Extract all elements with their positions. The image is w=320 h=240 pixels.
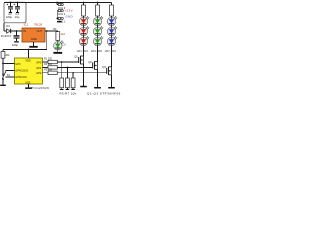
svg-text:R1 220: R1 220 — [44, 58, 53, 61]
junction CN1 — [56, 2, 58, 4]
ground Q3 — [108, 87, 115, 89]
LED green row 2 column 2 — [93, 26, 103, 35]
svg-text:IC1: IC1 — [24, 22, 29, 26]
connector CN1 pin 1 — [58, 17, 63, 19]
capacitor C2 — [7, 3, 13, 14]
wire rail to R10 — [111, 3, 113, 6]
switch S1 — [2, 71, 6, 80]
wire gate node drop — [66, 67, 68, 78]
svg-text:Q1-Q3 STP36NF06: Q1-Q3 STP36NF06 — [87, 91, 121, 95]
wire VSS stub — [28, 84, 30, 87]
wire LED column 3 to Q3 drain — [111, 46, 113, 67]
wire R3 to gate — [57, 72, 106, 74]
svg-text:R5-R7 10k: R5-R7 10k — [59, 91, 76, 95]
junction — [72, 72, 74, 74]
wire VDD stub — [28, 50, 30, 59]
wire R1 to gate — [57, 61, 78, 63]
svg-text:Q2: Q2 — [88, 60, 92, 64]
LED blue row 3 column 3 — [107, 36, 117, 45]
junction VDD — [28, 49, 30, 51]
svg-text:78L05: 78L05 — [34, 22, 43, 26]
transistor Q2 (N-MOSFET) — [93, 61, 98, 69]
wire — [83, 26, 85, 28]
svg-text:IN: IN — [23, 29, 26, 33]
svg-text:R3 220: R3 220 — [44, 68, 53, 71]
wire GP0 out — [43, 61, 49, 63]
svg-text:GND: GND — [65, 14, 73, 18]
svg-text:1N4007: 1N4007 — [1, 34, 12, 38]
capacitor C3 — [14, 31, 20, 43]
wire gate node drop — [61, 62, 63, 78]
wire — [97, 36, 99, 38]
LED D2 power indicator — [54, 41, 64, 50]
wire — [97, 26, 99, 28]
svg-text:10µ: 10µ — [15, 15, 20, 19]
wire — [57, 30, 59, 33]
LED green row 3 column 2 — [93, 36, 103, 45]
svg-text:GP3: GP3 — [15, 62, 21, 66]
wire R7 to S1 — [2, 58, 4, 74]
wire gate node drop — [72, 73, 74, 78]
LED red row 1 column 1 — [79, 16, 89, 25]
wire GP2 out — [43, 72, 49, 74]
wire to GP3 — [3, 63, 15, 65]
LED blue row 2 column 3 — [107, 26, 117, 35]
svg-text:GND: GND — [31, 37, 37, 41]
svg-text:PIC12F629: PIC12F629 — [31, 86, 49, 90]
svg-text:VSS: VSS — [25, 80, 30, 84]
wire CN1 pin2 to ground — [57, 10, 58, 12]
wire IC1 GND pin — [33, 42, 35, 46]
ground IC2 — [25, 87, 32, 89]
wire — [57, 40, 59, 41]
junction — [17, 2, 19, 4]
wire CN1 pin3 — [56, 3, 58, 5]
resistor R7 — [1, 51, 5, 58]
ground Q1 — [80, 86, 87, 88]
junction — [56, 18, 58, 20]
svg-text:S1: S1 — [7, 73, 11, 77]
wire rail to R8 — [83, 3, 85, 6]
microcontroller IC2 PIC12F629 — [15, 58, 43, 84]
resistor R10 LED column — [110, 5, 114, 16]
LED red row 3 column 1 — [79, 36, 89, 45]
wire D1 to IC1 — [11, 30, 22, 32]
wire — [97, 16, 99, 17]
wire Q1 source — [83, 64, 85, 86]
svg-text:GP2: GP2 — [36, 71, 42, 75]
wire Q3 source — [111, 75, 113, 87]
resistor R1 — [48, 60, 57, 63]
wire — [72, 88, 74, 89]
junction — [10, 2, 12, 4]
wire — [83, 16, 85, 17]
ground Q2 — [94, 87, 101, 89]
ground D2 — [53, 52, 62, 54]
svg-text:Q3: Q3 — [102, 65, 106, 69]
junction rail — [97, 2, 99, 4]
LED blue row 1 column 3 — [107, 16, 117, 25]
wire +5V rail to PIC — [3, 49, 47, 51]
svg-text:LD7-LD9: LD7-LD9 — [105, 49, 117, 53]
svg-text:1k2: 1k2 — [61, 32, 66, 36]
wire — [2, 50, 4, 52]
wire +5V drop — [46, 31, 48, 50]
wire Q2 source — [97, 69, 99, 87]
capacitor C1 — [14, 3, 20, 14]
wire rail to R9 — [97, 3, 99, 6]
resistor R4 — [56, 32, 60, 41]
resistor R8 LED column — [82, 5, 86, 16]
svg-text:R2 220: R2 220 — [44, 63, 53, 66]
wire — [111, 26, 113, 28]
connector CN1 pin 2 — [58, 10, 63, 12]
ground CN1 — [57, 21, 62, 23]
svg-text:VDD: VDD — [25, 58, 31, 62]
resistor R9 LED column — [96, 5, 100, 16]
wire — [111, 36, 113, 38]
resistor R7 pulldown — [71, 78, 75, 88]
svg-text:GP4/CLKO: GP4/CLKO — [15, 68, 28, 72]
LED green row 1 column 2 — [93, 16, 103, 25]
resistor R5 pulldown — [60, 78, 64, 88]
LED red row 2 column 1 — [79, 26, 89, 35]
junction — [67, 67, 69, 69]
wire — [57, 50, 59, 52]
junction +5V — [46, 30, 48, 32]
wire IC1 OUT +5V — [45, 30, 58, 32]
input filter annotation box — [4, 2, 26, 23]
ground R6 — [66, 89, 70, 90]
junction rail — [83, 2, 85, 4]
svg-text:10k: 10k — [5, 53, 10, 57]
ground IC1 — [29, 46, 37, 48]
transistor Q1 (N-MOSFET) — [79, 56, 84, 64]
wire GP1 out — [43, 66, 49, 68]
svg-text:100µ: 100µ — [6, 15, 12, 19]
wire — [111, 16, 113, 17]
svg-text:D1: D1 — [6, 24, 10, 28]
resistor R6 pulldown — [66, 78, 70, 88]
resistor R3 — [48, 71, 57, 74]
svg-text:LD1-LD3: LD1-LD3 — [77, 49, 89, 53]
svg-text:GP1: GP1 — [36, 66, 42, 70]
regulator IC1 78L05 — [22, 28, 45, 42]
wire LED column 2 to Q2 drain — [97, 46, 99, 62]
wire to D1 — [3, 23, 5, 31]
svg-text:LD4-LD6: LD4-LD6 — [91, 49, 103, 53]
ground R5 — [60, 89, 64, 90]
wire +12V top rail — [4, 2, 112, 4]
svg-text:220µ: 220µ — [12, 43, 19, 47]
ground R7 — [71, 89, 75, 90]
ground S1 — [0, 85, 6, 86]
wire S1 to ground — [2, 80, 4, 85]
svg-text:Q1: Q1 — [74, 54, 78, 58]
junction — [61, 61, 63, 63]
svg-text:+12V: +12V — [65, 8, 73, 12]
svg-text:GP0: GP0 — [36, 61, 42, 65]
connector CN1 pin 3 — [58, 3, 63, 5]
diode D1 — [4, 29, 11, 34]
resistor R2 — [48, 66, 57, 69]
svg-text:OUT: OUT — [37, 29, 43, 33]
wire — [61, 88, 63, 89]
wire to GP5 — [6, 76, 15, 78]
wire — [66, 88, 68, 89]
wire to GP4 — [6, 70, 15, 72]
junction GP3 — [2, 63, 4, 65]
junction — [16, 30, 18, 32]
wire LED column 1 to Q1 drain — [83, 46, 85, 56]
transistor Q3 (N-MOSFET) — [107, 67, 112, 75]
wire R2 to gate — [57, 66, 92, 68]
svg-text:GP5/CLKI: GP5/CLKI — [15, 75, 27, 79]
wire — [83, 36, 85, 38]
svg-text:D2: D2 — [62, 43, 66, 47]
